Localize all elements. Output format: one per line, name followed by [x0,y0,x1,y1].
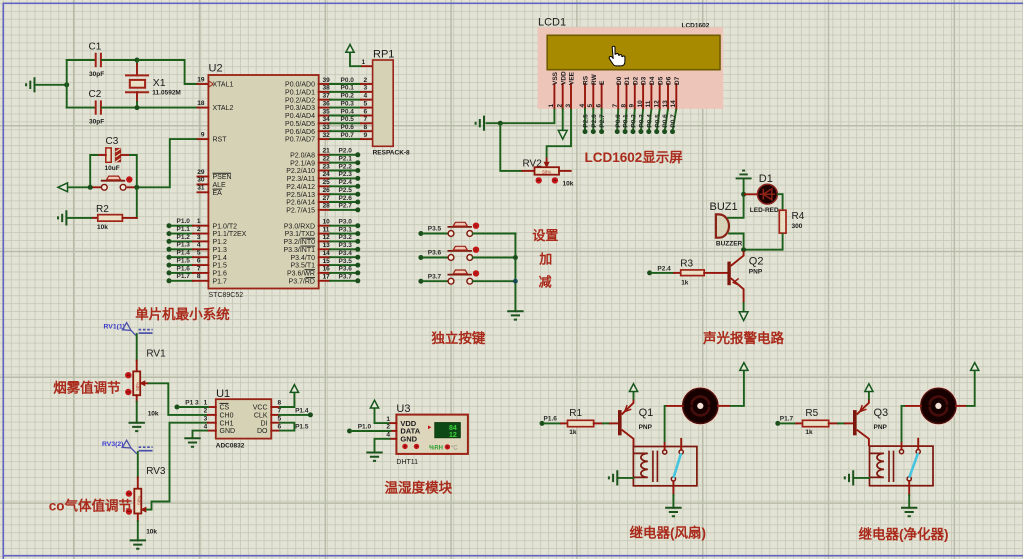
wire button P3.7 to common rail [473,280,516,282]
wire LCD pin to net label P2.6 [591,109,598,134]
U1 pin CH0 (2) [204,408,234,420]
pin P0.6 (33) wire to RP1 pin 8 [285,124,373,136]
svg-text:50%: 50% [135,382,140,391]
U3 pin GND (4) [386,432,417,444]
svg-text:13: 13 [662,100,669,108]
resistor R2 10k [91,204,137,231]
pin P0.7 (32) wire to RP1 pin 9 [285,132,373,144]
wire LCD pin D6 to net label P0.6 [662,109,669,134]
svg-text:P3.3/INT1: P3.3/INT1 [283,247,315,254]
svg-text:D1: D1 [759,173,773,185]
wire LCD VSS to ground rail [486,109,555,123]
svg-text:P1.0: P1.0 [358,423,372,430]
svg-text:P0.7: P0.7 [341,132,355,139]
wire node to LED D1 [745,193,758,195]
svg-text:P3.7: P3.7 [428,273,442,280]
wire power to RP1 pin 1 [350,53,362,66]
pin P0.3 (36) wire to RP1 pin 5 [285,100,373,112]
svg-text:P3.6: P3.6 [428,250,442,257]
wire reset button to RST [128,186,135,188]
svg-text:P3.7: P3.7 [339,274,353,281]
ground terminal (left of C1/C2) [26,77,34,92]
svg-text:5: 5 [587,104,594,108]
svg-text:RV1(1): RV1(1) [104,324,125,331]
svg-text:12: 12 [449,432,457,439]
svg-text:RV1: RV1 [146,349,166,360]
svg-text:P2.7: P2.7 [599,114,606,128]
pin P3.0 (10) stub with net label P3.0 [284,219,360,231]
svg-text:RV3(2): RV3(2) [102,441,123,448]
svg-text:P0.2: P0.2 [341,93,355,100]
pin P3.3 (13) stub with net label P3.3 [283,242,360,254]
svg-text:CLK: CLK [254,413,268,420]
svg-text:GND: GND [220,428,236,435]
pin P1.3 (4) with wire and net label P1.3 [167,242,228,254]
svg-text:减: 减 [539,275,552,290]
svg-text:D6: D6 [666,76,673,85]
svg-text:12: 12 [654,100,661,108]
ground below RV3 [130,540,146,548]
svg-text:P3.5: P3.5 [339,258,353,265]
svg-text:P2.2/A10: P2.2/A10 [286,168,315,175]
svg-text:28: 28 [323,203,331,210]
svg-text:4: 4 [386,432,390,439]
svg-text:1: 1 [386,416,390,423]
svg-text:P0.5: P0.5 [341,116,355,123]
potentiometer RV1 10k [133,349,166,418]
wire C3 left to reset node [99,154,106,156]
svg-text:P2.7/A15: P2.7/A15 [286,208,315,215]
pin XTAL1 (19) [197,76,233,88]
net label P1 3 dot to U1 CS [175,399,208,409]
wire LCD VEE to RV2 wiper [547,109,571,159]
ground below U3 [366,453,382,461]
wire down to RV2 [500,123,522,171]
wire power to U3 VDD [375,409,391,424]
svg-text:11.0592M: 11.0592M [152,89,181,96]
svg-text:%RH: %RH [429,445,443,451]
svg-text:P1.4: P1.4 [213,255,228,262]
pin P0.5 (34) wire to RP1 pin 7 [285,116,373,128]
transistor Q2 PNP [727,251,763,303]
wire ground to relay coil [619,477,634,479]
voltage probe RV1(1) [104,323,153,337]
capacitor C2 [89,89,105,125]
U3 pin DATA (2) [386,424,420,436]
wire power to LED/buzzer node [743,179,745,194]
svg-text:RV3: RV3 [146,466,166,477]
pin P2.1 (22) stub with net label P2.1 [290,156,360,168]
capacitor C3 (10uF polarized) [105,136,122,172]
relay2 contact terminals [899,439,920,481]
pin P2.7 (28) stub with net label P2.7 [286,203,360,215]
svg-text:P3.0: P3.0 [339,219,353,226]
pin P0.1 (38) wire to RP1 pin 3 [285,85,373,97]
svg-text:34: 34 [323,116,331,123]
svg-text:C3: C3 [106,136,119,147]
push button reset [101,184,107,190]
svg-text:D4: D4 [649,76,656,85]
svg-text:P2.4/A12: P2.4/A12 [286,184,315,191]
wire C1 row to XTAL1 bend [137,60,198,84]
net label P1.0 dot to U3 DATA [347,423,390,433]
svg-text:RESPACK-8: RESPACK-8 [373,150,410,157]
svg-text:P3.5: P3.5 [428,226,442,233]
power terminal above motor [740,363,748,371]
ground terminal (left of R2) [58,210,66,225]
svg-text:P3.5/T1: P3.5/T1 [290,263,315,270]
svg-text:R5: R5 [805,408,818,419]
svg-text:2: 2 [204,408,208,415]
U3 pin VDD (1) [386,416,416,428]
pin P1.7 (8) with wire and net label P1.7 [167,273,228,285]
relay coil [633,453,647,477]
net label P1.7 dot [775,415,793,426]
U1 pin DI (5) [261,415,282,427]
wire LCD pin D5 to net label P0.5 [654,109,661,134]
wire C1 to crystal node [102,59,137,61]
relay (fan) box [633,447,697,486]
relay core [653,451,658,482]
wire P3.5 to button [423,233,449,235]
U1 pin CS (1) [204,400,230,412]
svg-text:7: 7 [278,408,282,415]
svg-text:P1.4: P1.4 [295,407,309,414]
wire probe to RV3 [137,452,139,478]
power terminal above motor2 [971,363,979,371]
relay2 core [889,451,894,482]
wire R5 to Q3 base [829,422,853,424]
svg-text:P2.1: P2.1 [339,156,353,163]
svg-text:P2.3/A11: P2.3/A11 [287,176,315,183]
potentiometer RV2 10k [523,159,574,188]
svg-text:P2.5: P2.5 [583,114,590,128]
svg-text:P3.2: P3.2 [339,234,353,241]
wire probe to RV1 [136,334,138,361]
svg-text:6: 6 [278,423,282,430]
relay switch blade (cyan) [674,455,681,477]
pin P2.2 (23) stub with net label P2.2 [286,163,360,175]
svg-text:1k: 1k [569,429,577,436]
svg-text:RP1: RP1 [373,49,394,61]
svg-text:39: 39 [323,77,331,84]
ground below U1 GND [184,438,200,446]
svg-text:C1: C1 [89,42,102,53]
wire button P3.6 to common rail [473,257,516,259]
svg-text:P1.4: P1.4 [177,250,191,257]
ground terminal (left of LCD) [476,116,484,131]
svg-text:P1.7: P1.7 [177,273,191,280]
net label dot P3.7 [418,273,441,283]
svg-text:P0.6/AD6: P0.6/AD6 [285,129,315,136]
node junction rail/P3.6 [513,255,518,260]
node junction VSS/RV2 [498,121,503,126]
wire LCD pin D4 to net label P0.4 [646,109,653,134]
node junction C1/X1 [135,58,140,63]
svg-text:11: 11 [645,100,652,107]
svg-text:P2.3: P2.3 [339,171,353,178]
svg-text:加: 加 [538,251,552,266]
wire U1 DI-DO tie with net label P1.5 [279,423,309,431]
pin P3.6 (16) stub with net label P3.6 [287,266,360,278]
svg-text:P1.0/T2: P1.0/T2 [213,223,238,230]
sensor U3 DHT11 body [396,403,468,466]
wire emitter to terminal [743,303,745,312]
svg-text:27: 27 [323,195,331,202]
svg-text:4: 4 [197,242,201,249]
svg-text:P1.2: P1.2 [213,239,228,246]
LCD pin 5 RW [587,73,598,108]
svg-text:U1: U1 [216,388,230,400]
svg-text:7: 7 [364,116,368,123]
svg-text:37: 37 [323,93,331,100]
LCD1 screen [547,35,720,69]
wire RV1 bottom to ground [136,395,138,423]
svg-text:P0.6: P0.6 [662,114,669,128]
pin P1.5 (6) with wire and net label P1.5 [167,258,228,270]
svg-text:14: 14 [323,250,331,257]
ground below relay [665,508,681,516]
svg-text:R4: R4 [792,211,805,222]
RV2 adjust buttons [536,177,542,183]
svg-text:CS: CS [220,405,230,412]
svg-text:6: 6 [364,108,368,115]
svg-text:PNP: PNP [874,424,888,431]
pin P1.0 (1) with wire and net label P1.0 [167,218,238,230]
wire Q3 emitter to power [868,392,870,399]
RV3 adjust buttons [126,490,132,496]
svg-text:P1 3: P1 3 [185,399,199,406]
svg-text:R1: R1 [569,408,582,419]
node junction C1/C2 left [64,82,69,87]
wire motor left to relay terminal [665,406,683,450]
svg-text:CH0: CH0 [220,413,234,420]
node junction power/buzzer/LED [741,192,746,197]
wire U1 CLK to net label P1.4 [279,407,313,417]
ground below relay2 [901,508,917,516]
svg-text:P2.1/A9: P2.1/A9 [290,160,315,167]
wire RV3 wiper to U1 CH1 [146,423,208,510]
svg-text:3: 3 [565,104,572,108]
pin P3.5 (15) stub with net label P3.5 [290,258,360,270]
wire LED to R4 [777,194,783,210]
svg-text:P2.0/A8: P2.0/A8 [290,152,315,159]
pin P3.2 (12) stub with net label P3.2 [283,234,360,246]
transistor Q1 PNP [618,399,653,447]
svg-text:30pF: 30pF [89,71,104,78]
svg-text:P0.3: P0.3 [341,100,355,107]
LCD pin 14 D7 [670,76,681,108]
wire P1.7 to R5 [780,422,796,424]
motor (fan) [682,387,719,424]
pin P0.2 (37) wire to RP1 pin 4 [285,93,373,105]
wire RV1 wiper to U1 CH0 [148,383,208,415]
svg-text:DO: DO [257,428,268,435]
op-amp U2 STC89C52 body [208,63,318,300]
LCD pin 1 VSS [548,71,559,108]
svg-text:P2.2: P2.2 [339,163,353,170]
crystal X1 [125,61,181,107]
wire C2 row left [67,107,95,109]
svg-text:VEE: VEE [569,71,576,85]
pin P2.3 (24) stub with net label P2.3 [287,171,361,183]
svg-text:5: 5 [364,100,368,107]
svg-text:16: 16 [323,266,331,273]
resistor pack RP1 RESPACK-8 [362,49,411,157]
pin EA (31) [197,185,222,197]
net label dot P3.6 [418,250,441,260]
svg-text:Q3: Q3 [874,407,889,419]
U1 pin DO (6) [257,423,282,435]
svg-text:4: 4 [579,104,586,108]
svg-text:设置: 设置 [532,228,558,243]
ADC U1 ADC0832 body [216,388,271,449]
svg-text:P0.5/AD5: P0.5/AD5 [285,121,315,128]
U1 pin CH1 (3) [204,415,234,427]
svg-text:Q1: Q1 [639,407,654,419]
svg-text:P1.2: P1.2 [177,234,191,241]
svg-text:11: 11 [323,226,330,233]
svg-text:P2.4: P2.4 [339,179,353,186]
svg-text:2: 2 [364,77,368,84]
svg-text:1: 1 [197,218,201,225]
svg-text:P2.7: P2.7 [339,203,353,210]
LCD pin 11 D4 [645,76,656,108]
LED D1 LED-RED [750,173,779,214]
svg-text:P1.1: P1.1 [177,226,191,233]
svg-text:温湿度模块: 温湿度模块 [385,480,453,496]
svg-text:10k: 10k [148,411,159,418]
LCD pin 8 D1 [620,76,631,108]
mouse cursor on screen [609,46,625,66]
svg-text:10: 10 [637,100,644,108]
wire R4 down to collector node [744,233,783,250]
svg-text:XTAL2: XTAL2 [213,105,234,112]
svg-text:6: 6 [595,104,602,108]
svg-text:P1.0: P1.0 [177,218,191,225]
svg-text:P0.0/AD0: P0.0/AD0 [285,82,315,89]
svg-text:3: 3 [197,234,201,241]
wire LCD pin D7 to net label P0.7 [670,109,677,134]
svg-text:5: 5 [278,415,282,422]
pin P0.0 (39) wire to RP1 pin 2 [285,77,373,89]
pin P2.5 (26) stub with net label P2.5 [286,187,360,199]
svg-text:PNP: PNP [749,269,763,276]
wire RV3 bottom to ground [137,514,139,541]
svg-text:14: 14 [670,100,677,108]
svg-text:继电器(风扇): 继电器(风扇) [630,525,707,541]
svg-text:P3.1: P3.1 [339,226,353,233]
LCD pin 4 RS [579,75,590,108]
svg-text:24: 24 [323,171,331,178]
svg-text:BUZZER: BUZZER [716,241,743,248]
svg-text:P0.1: P0.1 [623,114,630,128]
svg-text:D7: D7 [674,76,681,85]
svg-text:8: 8 [197,273,201,280]
LCD pin 10 D3 [637,76,648,108]
wire LCD pin D3 to net label P0.3 [638,109,645,134]
svg-text:22: 22 [323,156,331,163]
wire LCD pin D1 to net label P0.1 [623,109,630,134]
pin P2.0 (21) stub with net label P2.0 [290,148,360,160]
wire motor right to power [718,371,744,406]
wire Q1 emitter to power [633,392,635,399]
svg-text:P3.1/TXD: P3.1/TXD [285,231,315,238]
svg-text:P1.5: P1.5 [177,258,191,265]
svg-text:VDD: VDD [560,71,567,85]
svg-text:P2.6: P2.6 [591,114,598,128]
wire C2 to XTAL2 [102,107,198,109]
U1 pin CLK (7) [254,408,282,420]
LCD pin 13 D6 [662,76,673,108]
svg-text:P1.7: P1.7 [780,415,794,422]
svg-text:2: 2 [197,226,201,233]
LCD pin 3 VEE [565,71,576,108]
LCD pin 7 D0 [612,76,623,108]
svg-text:U2: U2 [209,63,223,75]
pin PSEN (29) [197,169,231,181]
push button P3.6 [448,255,454,261]
svg-text:50%: 50% [542,169,551,174]
svg-text:P0.7: P0.7 [670,114,677,128]
svg-text:PSEN: PSEN [213,174,232,181]
svg-text:6: 6 [197,258,201,265]
svg-text:P2.4: P2.4 [657,265,671,272]
svg-text:Q2: Q2 [749,256,764,268]
svg-text:P2.5/A13: P2.5/A13 [286,192,315,199]
svg-text:P3.6/WR: P3.6/WR [287,271,315,278]
svg-text:PNP: PNP [639,424,653,431]
wire U1 VCC to power [279,393,294,407]
pin ALE (30) [197,177,226,189]
svg-text:P0.4: P0.4 [341,108,355,115]
svg-text:P1.6: P1.6 [544,415,558,422]
net label dot P3.5 [418,226,441,236]
pin P1.2 (3) with wire and net label P1.2 [167,234,228,246]
svg-text:U3: U3 [396,403,410,415]
svg-text:4: 4 [364,93,368,100]
svg-text:9: 9 [364,132,368,139]
svg-text:P0.1/AD1: P0.1/AD1 [285,90,315,97]
wire P3.6 to button [423,257,449,259]
svg-text:5: 5 [197,250,201,257]
svg-text:ADC0832: ADC0832 [216,442,245,449]
wire LCD pin D2 to net label P0.2 [631,109,638,134]
svg-text:26: 26 [323,187,331,194]
svg-text:P1.3: P1.3 [177,242,191,249]
transistor Q3 PNP [853,399,888,446]
svg-text:7: 7 [197,265,201,272]
svg-text:D1: D1 [624,76,631,85]
svg-text:1: 1 [204,400,208,407]
svg-text:10k: 10k [563,180,574,187]
svg-text:10k: 10k [146,528,157,535]
svg-text:P1.7: P1.7 [213,278,228,285]
svg-text:50%: 50% [136,496,141,505]
wire LCD pin to net label P2.7 [599,109,606,134]
power terminal above Q1 [629,384,637,392]
svg-text:P0.3: P0.3 [639,114,646,128]
svg-text:D5: D5 [657,76,664,85]
svg-text:P3.7/RD: P3.7/RD [289,278,315,285]
svg-text:9: 9 [201,131,205,138]
U3 display readout [428,423,460,440]
pin P3.7 (17) stub with net label P3.7 [289,274,361,286]
motor (purifier) [920,387,957,424]
svg-text:ALE: ALE [213,182,227,189]
svg-text:P1.6: P1.6 [213,271,228,278]
pin P3.4 (14) stub with net label P3.4 [290,250,360,262]
